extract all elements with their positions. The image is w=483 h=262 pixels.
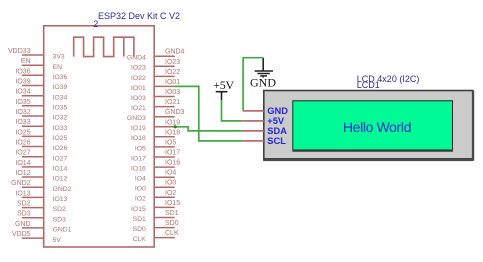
svg-text:GND: GND bbox=[15, 221, 31, 228]
svg-text:GND: GND bbox=[267, 106, 288, 116]
ESP32 left pin IO26 (internal IO26) bbox=[15, 140, 67, 153]
svg-text:IO4: IO4 bbox=[135, 176, 146, 183]
svg-text:IO03: IO03 bbox=[165, 89, 180, 96]
svg-text:SD1: SD1 bbox=[133, 216, 146, 223]
ESP32 right pin IO2 (internal IO2) bbox=[135, 190, 177, 203]
svg-text:LCD1: LCD1 bbox=[357, 80, 380, 90]
svg-text:IO18: IO18 bbox=[131, 135, 146, 142]
svg-text:IO15: IO15 bbox=[131, 206, 146, 213]
svg-text:Hello World: Hello World bbox=[343, 119, 411, 135]
ESP32 right pin IO23 (internal IO23) bbox=[131, 59, 180, 72]
ESP32 right pin CLK (internal CLK) bbox=[133, 230, 179, 243]
svg-text:GND1: GND1 bbox=[53, 227, 72, 234]
ESP32 left pin SD3 (internal SD3) bbox=[17, 211, 66, 224]
svg-text:SD3: SD3 bbox=[53, 216, 66, 223]
ESP32 logo (clock square-wave) bbox=[74, 37, 134, 56]
svg-text:IO21: IO21 bbox=[165, 99, 180, 106]
svg-text:IO32: IO32 bbox=[15, 109, 30, 116]
ESP32 left pin IO39 (internal IO39) bbox=[15, 79, 67, 92]
svg-text:IO15: IO15 bbox=[165, 200, 180, 207]
svg-text:IO36: IO36 bbox=[53, 74, 68, 81]
svg-text:IO2: IO2 bbox=[135, 196, 146, 203]
+5V power rail symbol bbox=[213, 78, 234, 100]
wire IO01 to LCD SCL bbox=[175, 86, 243, 140]
ESP32 right pin SD0 (internal SD0) bbox=[133, 220, 179, 233]
ESP32 left pin IO36 (internal IO36) bbox=[15, 68, 67, 81]
ESP32 right pin IO4 (internal IO4) bbox=[135, 170, 177, 183]
ESP32 right pin GND4 (internal GND4) bbox=[127, 49, 185, 62]
ESP32 left pin SD2 (internal SD2) bbox=[17, 201, 66, 214]
svg-text:IO35: IO35 bbox=[53, 105, 68, 112]
svg-text:GND2: GND2 bbox=[11, 180, 31, 187]
svg-text:SD2: SD2 bbox=[53, 206, 66, 213]
wire IO19 to LCD SDA bbox=[175, 127, 243, 131]
svg-text:GND4: GND4 bbox=[127, 55, 146, 62]
svg-text:GND2: GND2 bbox=[53, 186, 72, 193]
ESP32 right pin IO01 (internal IO01) bbox=[131, 79, 180, 92]
wire +5V rail to LCD +5V bbox=[222, 100, 243, 121]
svg-text:IO5: IO5 bbox=[165, 139, 176, 146]
svg-text:SD2: SD2 bbox=[17, 201, 31, 208]
ESP32 left pin IO13 (internal IO13) bbox=[15, 190, 67, 203]
svg-text:SD0: SD0 bbox=[165, 220, 179, 227]
ESP32 left pin IO34 (internal IO34) bbox=[15, 89, 67, 102]
svg-text:GND3: GND3 bbox=[127, 115, 146, 122]
svg-text:IO32: IO32 bbox=[53, 115, 68, 122]
svg-text:IO19: IO19 bbox=[165, 119, 180, 126]
svg-text:IO22: IO22 bbox=[131, 75, 146, 82]
svg-text:IO26: IO26 bbox=[15, 140, 30, 147]
svg-text:IO27: IO27 bbox=[53, 155, 68, 162]
ESP32 right pin IO16 (internal IO16) bbox=[131, 160, 180, 173]
LCD pin SCL bbox=[243, 136, 287, 146]
svg-text:IO36: IO36 bbox=[15, 68, 30, 75]
svg-text:SD1: SD1 bbox=[165, 210, 179, 217]
ESP32 right pin GND3 (internal GND3) bbox=[127, 109, 185, 122]
ground symbol GND bbox=[250, 58, 276, 90]
svg-text:IO18: IO18 bbox=[165, 129, 180, 136]
svg-text:IO25: IO25 bbox=[53, 135, 68, 142]
ESP32 right pin IO22 (internal IO22) bbox=[131, 69, 180, 82]
svg-text:IO0: IO0 bbox=[165, 180, 176, 187]
svg-text:IO21: IO21 bbox=[131, 105, 146, 112]
svg-text:IO4: IO4 bbox=[165, 170, 176, 177]
svg-text:IO2: IO2 bbox=[165, 190, 176, 197]
svg-text:SD3: SD3 bbox=[17, 211, 31, 218]
ESP32 left pin IO35 (internal IO35) bbox=[15, 99, 67, 112]
ESP32 left pin EN (internal EN) bbox=[21, 58, 62, 71]
ESP32 Dev Kit C V2 module body bbox=[44, 26, 155, 247]
svg-text:IO33: IO33 bbox=[53, 125, 68, 132]
svg-text:IO5: IO5 bbox=[135, 145, 146, 152]
ESP32 left pin VDD5 (internal 5V) bbox=[12, 231, 61, 244]
svg-text:IO27: IO27 bbox=[15, 150, 30, 157]
svg-text:3V3: 3V3 bbox=[53, 54, 65, 61]
svg-text:CLK: CLK bbox=[165, 230, 179, 237]
ESP32 right pin IO15 (internal IO15) bbox=[131, 200, 180, 213]
ESP32 left pin IO12 (internal IO12) bbox=[15, 170, 67, 183]
svg-text:IO34: IO34 bbox=[53, 94, 68, 101]
svg-text:IO39: IO39 bbox=[15, 79, 30, 86]
svg-text:IO17: IO17 bbox=[165, 150, 180, 157]
ESP32 left pin GND (internal GND1) bbox=[15, 221, 72, 234]
svg-text:IO0: IO0 bbox=[135, 186, 146, 193]
svg-text:IO12: IO12 bbox=[53, 176, 68, 183]
svg-text:2: 2 bbox=[93, 19, 98, 29]
svg-text:IO19: IO19 bbox=[131, 125, 146, 132]
svg-text:5V: 5V bbox=[53, 237, 62, 244]
svg-text:EN: EN bbox=[53, 64, 63, 71]
svg-text:IO23: IO23 bbox=[131, 65, 146, 72]
svg-text:SD0: SD0 bbox=[133, 226, 146, 233]
svg-text:GND3: GND3 bbox=[165, 109, 185, 116]
ESP32 right pin IO19 (internal IO19) bbox=[131, 119, 180, 132]
svg-text:IO16: IO16 bbox=[165, 160, 180, 167]
svg-text:+5V: +5V bbox=[267, 116, 285, 126]
svg-text:IO16: IO16 bbox=[131, 166, 146, 173]
svg-text:SDA: SDA bbox=[267, 126, 287, 136]
svg-text:IO13: IO13 bbox=[15, 190, 30, 197]
svg-text:EN: EN bbox=[21, 58, 31, 65]
ESP32 left pin IO27 (internal IO27) bbox=[15, 150, 67, 163]
ESP32 right pin IO03 (internal IO03) bbox=[131, 89, 180, 102]
svg-text:IO39: IO39 bbox=[53, 84, 68, 91]
svg-text:CLK: CLK bbox=[133, 236, 147, 243]
svg-text:IO22: IO22 bbox=[165, 69, 180, 76]
svg-text:IO03: IO03 bbox=[131, 95, 146, 102]
junction at IO19 pin end bbox=[174, 125, 177, 128]
ESP32 right pin IO5 (internal IO5) bbox=[135, 139, 177, 152]
svg-text:GND: GND bbox=[250, 76, 276, 90]
svg-text:ESP32 Dev Kit C V2: ESP32 Dev Kit C V2 bbox=[98, 11, 180, 21]
svg-text:IO23: IO23 bbox=[165, 59, 180, 66]
ESP32 left pin IO33 (internal IO33) bbox=[15, 119, 67, 132]
svg-text:IO01: IO01 bbox=[165, 79, 180, 86]
ESP32 left pin GND2 (internal GND2) bbox=[11, 180, 72, 193]
LCD pin GND bbox=[243, 106, 289, 116]
svg-text:IO35: IO35 bbox=[15, 99, 30, 106]
svg-text:VDD33: VDD33 bbox=[8, 48, 31, 55]
ESP32 left pin IO14 (internal IO14) bbox=[15, 160, 67, 173]
wire GND symbol to LCD GND bbox=[243, 58, 263, 111]
svg-text:IO01: IO01 bbox=[131, 85, 146, 92]
LCD1 4x20 I2C module body bbox=[264, 91, 473, 159]
LCD pin +5V bbox=[243, 116, 285, 126]
LCD green display screen bbox=[293, 101, 453, 150]
svg-text:IO26: IO26 bbox=[53, 145, 68, 152]
ESP32 right pin SD1 (internal SD1) bbox=[133, 210, 179, 223]
ESP32 right pin IO17 (internal IO17) bbox=[131, 150, 180, 163]
ESP32 left pin VDD33 (internal 3V3) bbox=[8, 48, 65, 61]
svg-text:SCL: SCL bbox=[267, 136, 286, 146]
svg-text:IO13: IO13 bbox=[53, 196, 68, 203]
svg-text:IO14: IO14 bbox=[53, 166, 68, 173]
svg-text:IO33: IO33 bbox=[15, 119, 30, 126]
ESP32 left pin IO25 (internal IO25) bbox=[15, 129, 67, 142]
svg-text:+5V: +5V bbox=[213, 78, 234, 92]
LCD pin SDA bbox=[243, 126, 288, 136]
svg-text:IO17: IO17 bbox=[131, 155, 146, 162]
svg-text:IO34: IO34 bbox=[15, 89, 30, 96]
svg-text:IO12: IO12 bbox=[15, 170, 30, 177]
ESP32 right pin IO0 (internal IO0) bbox=[135, 180, 177, 193]
ESP32 right pin IO18 (internal IO18) bbox=[131, 129, 180, 142]
svg-text:GND4: GND4 bbox=[165, 49, 185, 56]
svg-text:VDD5: VDD5 bbox=[12, 231, 31, 238]
ESP32 left pin IO32 (internal IO32) bbox=[15, 109, 67, 122]
svg-text:IO25: IO25 bbox=[15, 129, 30, 136]
ESP32 right pin IO21 (internal IO21) bbox=[131, 99, 180, 112]
svg-text:IO14: IO14 bbox=[15, 160, 30, 167]
